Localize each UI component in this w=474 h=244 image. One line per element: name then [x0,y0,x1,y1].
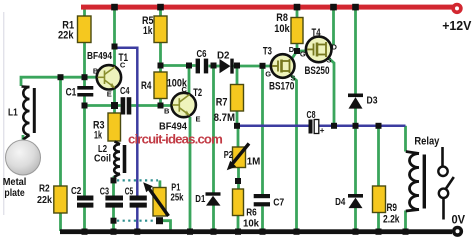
svg-text:R9: R9 [387,202,398,214]
svg-text:C2: C2 [71,185,81,197]
svg-text:BS170: BS170 [269,81,294,93]
svg-text:D4: D4 [335,196,345,208]
svg-text:Relay: Relay [414,136,440,148]
svg-text:E: E [107,89,112,98]
svg-text:C: C [120,61,126,70]
svg-text:Coil: Coil [94,153,111,165]
svg-text:10k: 10k [274,23,290,35]
svg-text:C8: C8 [307,110,316,121]
svg-text:D1: D1 [195,193,205,205]
svg-text:C6: C6 [197,48,207,60]
svg-text:R7: R7 [216,97,228,109]
svg-text:P2: P2 [224,149,233,161]
svg-text:S: S [327,56,332,65]
svg-text:C3: C3 [100,186,109,198]
svg-text:L1: L1 [8,107,18,119]
svg-text:T4: T4 [312,27,322,39]
svg-text:B: B [93,67,99,76]
svg-text:T2: T2 [193,87,202,99]
svg-text:D3: D3 [367,95,378,107]
svg-text:G: G [300,50,306,59]
svg-text:+: + [320,126,325,135]
svg-text:E: E [196,114,201,123]
svg-text:G: G [265,70,271,79]
svg-text:B: B [164,107,170,116]
svg-text:1k: 1k [94,130,103,142]
svg-text:plate: plate [4,187,24,199]
svg-text:R4: R4 [141,80,152,92]
svg-text:+12V: +12V [442,18,472,33]
svg-text:R2: R2 [39,182,50,194]
svg-text:C1: C1 [66,87,77,99]
svg-text:0V: 0V [452,213,466,227]
svg-text:circuit-ideas.com: circuit-ideas.com [128,132,222,147]
svg-text:C: C [182,85,188,94]
svg-text:D2: D2 [217,50,230,62]
svg-text:1k: 1k [143,25,153,37]
svg-text:D: D [289,45,295,54]
svg-text:C5: C5 [125,186,134,198]
svg-text:D: D [332,43,338,52]
svg-text:25k: 25k [171,191,184,203]
svg-text:22k: 22k [58,29,74,41]
svg-text:10k: 10k [243,218,259,230]
svg-text:T3: T3 [263,46,272,58]
svg-text:22k: 22k [37,194,52,206]
svg-text:C7: C7 [273,196,284,208]
svg-text:2.2k: 2.2k [383,214,400,226]
svg-text:BF494: BF494 [87,51,112,62]
svg-text:C4: C4 [120,85,130,97]
svg-text:8.7M: 8.7M [214,112,235,124]
svg-text:1M: 1M [247,156,261,168]
svg-text:BS250: BS250 [305,65,330,77]
